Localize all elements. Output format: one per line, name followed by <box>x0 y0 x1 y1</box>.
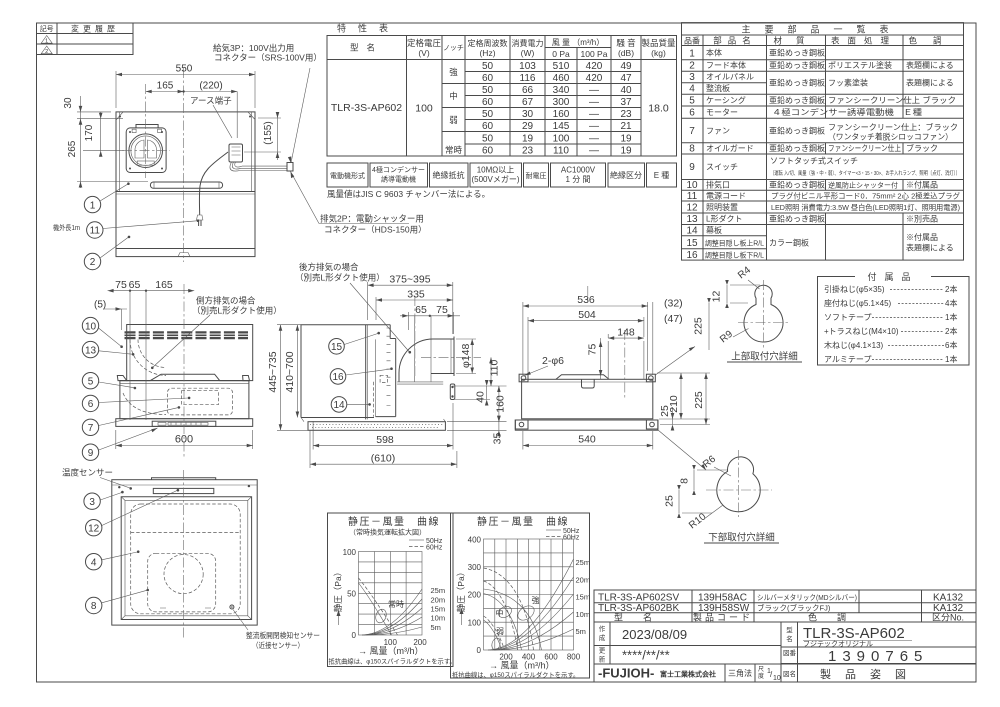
svg-text:製品コード: 製品コード <box>693 612 753 623</box>
svg-text:0: 0 <box>477 646 482 655</box>
balloon 15 <box>329 339 345 355</box>
svg-text:12: 12 <box>711 291 723 303</box>
svg-text:フッ素塗装: フッ素塗装 <box>828 78 868 88</box>
svg-text:2-φ6: 2-φ6 <box>542 355 564 367</box>
balloon 6 <box>82 395 98 411</box>
svg-text:160: 160 <box>553 109 570 120</box>
bottom inner line <box>116 248 255 250</box>
svg-text:335: 335 <box>407 289 425 301</box>
svg-text:30: 30 <box>63 97 74 109</box>
svg-text:亜鉛めっき鋼板: 亜鉛めっき鋼板 <box>769 214 825 224</box>
svg-text:50: 50 <box>482 109 494 120</box>
svg-text:200: 200 <box>468 591 482 600</box>
plug <box>197 215 203 220</box>
center line <box>183 470 185 640</box>
svg-text:116: 116 <box>520 73 536 84</box>
dim 210 <box>680 373 682 419</box>
svg-text:ファンシークリーン仕上: ファンシークリーン仕上 <box>828 143 901 153</box>
svg-text:13: 13 <box>686 214 698 225</box>
svg-text:19: 19 <box>620 134 632 145</box>
svg-text:下部取付穴詳細: 下部取付穴詳細 <box>708 532 775 544</box>
svg-text:15m: 15m <box>431 605 446 614</box>
hood center line <box>183 68 185 262</box>
svg-text:6: 6 <box>689 108 695 119</box>
svg-text:給気3P：100V出力用: 給気3P：100V出力用 <box>213 43 294 53</box>
svg-text:記号: 記号 <box>40 24 54 33</box>
svg-text:2本: 2本 <box>945 284 957 294</box>
svg-text:5: 5 <box>88 376 94 387</box>
svg-text:400: 400 <box>468 536 482 545</box>
svg-text:ソフトテープ: ソフトテープ <box>824 313 872 322</box>
svg-text:—: — <box>589 121 599 132</box>
svg-text:300: 300 <box>468 563 482 572</box>
dim 375~395 <box>367 282 369 320</box>
balloon 4 <box>86 554 102 570</box>
svg-text:上部取付穴詳細: 上部取付穴詳細 <box>731 351 798 363</box>
svg-text:225: 225 <box>693 391 705 409</box>
dim 160 <box>498 386 500 422</box>
svg-text:亜鉛めっき鋼板: 亜鉛めっき鋼板 <box>769 78 825 88</box>
left graph duct resistance curves <box>362 589 422 635</box>
svg-text:145: 145 <box>553 121 570 132</box>
svg-text:15m: 15m <box>576 593 591 602</box>
centerlines <box>738 322 789 324</box>
hood body <box>120 381 249 419</box>
svg-text:製品姿図: 製品姿図 <box>820 667 920 681</box>
svg-text:絶縁抵抗: 絶縁抵抗 <box>433 170 465 180</box>
svg-text:13: 13 <box>85 345 97 356</box>
svg-text:(220): (220) <box>199 81 222 92</box>
centerlines <box>706 489 772 491</box>
svg-text:8: 8 <box>679 478 691 484</box>
svg-text:ソフトタッチ式スイッチ: ソフトタッチ式スイッチ <box>770 156 858 166</box>
switch strip <box>152 421 216 426</box>
leader to upper keyhole <box>655 347 695 376</box>
svg-text:(32): (32) <box>664 298 683 310</box>
svg-text:L形ダクト: L形ダクト <box>706 214 742 224</box>
top bump <box>556 375 609 380</box>
balloon 11 <box>87 222 103 238</box>
svg-text:フジテックオリジナル: フジテックオリジナル <box>803 640 873 648</box>
svg-text:16: 16 <box>686 250 698 261</box>
leader to supply connector <box>291 68 310 163</box>
revision triangle 2 <box>41 46 52 54</box>
svg-text:→ 風量（m³/h）: → 風量（m³/h） <box>358 646 424 656</box>
svg-text:静圧（Pa）: 静圧（Pa） <box>456 568 466 612</box>
left graph box <box>328 513 454 667</box>
dim 75 vertical <box>600 338 602 379</box>
svg-text:4極コンデンサー: 4極コンデンサー <box>372 165 425 174</box>
svg-text:20m: 20m <box>431 596 446 605</box>
svg-text:8: 8 <box>91 601 97 612</box>
svg-text:付属品: 付属品 <box>867 272 918 282</box>
header bottom rule <box>327 59 677 61</box>
svg-text:亜鉛めっき鋼板: 亜鉛めっき鋼板 <box>769 60 825 70</box>
svg-text:25m: 25m <box>576 558 591 567</box>
svg-text:2: 2 <box>90 257 96 268</box>
svg-text:表面処理: 表面処理 <box>831 36 897 46</box>
right graph duct resistance curves <box>488 559 574 650</box>
svg-text:165: 165 <box>157 81 174 92</box>
svg-text:3: 3 <box>89 497 95 508</box>
svg-text:1 分 間: 1 分 間 <box>566 175 591 184</box>
part numbers <box>686 49 698 262</box>
svg-text:排気2P：電動シャッター用: 排気2P：電動シャッター用 <box>320 214 424 224</box>
svg-text:1本: 1本 <box>945 354 957 364</box>
svg-text:9: 9 <box>689 162 695 173</box>
svg-text:表題欄による: 表題欄による <box>906 78 954 88</box>
svg-text:名: 名 <box>786 634 793 643</box>
svg-text:（常時換気運転拡大図）: （常時換気運転拡大図） <box>349 528 426 537</box>
svg-text:5: 5 <box>689 96 695 107</box>
svg-text:21: 21 <box>620 121 632 132</box>
svg-text:誘導電動機: 誘導電動機 <box>381 175 416 184</box>
dim 25 lower <box>678 490 680 513</box>
svg-text:富士工業株式会社: 富士工業株式会社 <box>660 670 716 679</box>
svg-text:整流板: 整流板 <box>706 83 730 93</box>
svg-text:表題欄による: 表題欄による <box>906 60 954 70</box>
svg-text:210: 210 <box>668 395 680 413</box>
corner brackets <box>519 374 528 382</box>
svg-text:※付属品: ※付属品 <box>906 232 938 242</box>
outer rect <box>112 480 257 625</box>
svg-text:—: — <box>589 97 599 108</box>
svg-text:更: 更 <box>599 647 606 655</box>
svg-text:定格周波数: 定格周波数 <box>468 38 508 48</box>
svg-text:(W): (W) <box>521 48 535 58</box>
svg-text:25: 25 <box>664 495 676 507</box>
svg-text:表題欄による: 表題欄による <box>906 243 954 253</box>
row rules <box>465 71 641 73</box>
louver slots row 1 <box>125 331 249 333</box>
handle bar <box>150 182 222 188</box>
svg-text:0: 0 <box>352 631 357 640</box>
svg-text:定格電圧: 定格電圧 <box>407 38 442 48</box>
svg-text:1: 1 <box>45 39 48 45</box>
dim 600 <box>115 430 117 449</box>
svg-text:50: 50 <box>347 590 356 599</box>
svg-text:木ねじ(φ4.1×13): 木ねじ(φ4.1×13) <box>824 340 884 350</box>
svg-text:コネクター（HDS-150用）: コネクター（HDS-150用） <box>324 225 427 235</box>
graphs <box>328 513 591 679</box>
svg-text:1: 1 <box>90 200 96 211</box>
svg-text:—: — <box>589 85 599 96</box>
svg-text:19: 19 <box>522 134 534 145</box>
svg-text:成: 成 <box>599 633 606 642</box>
svg-text:区分No.: 区分No. <box>932 613 964 623</box>
L-duct elbow outer arc <box>399 339 433 373</box>
inner dashed square <box>148 553 216 612</box>
dim 110 <box>490 357 492 386</box>
shutter connector lead <box>230 162 287 171</box>
svg-text:型名: 型名 <box>614 612 672 623</box>
svg-text:14: 14 <box>686 226 698 237</box>
bottom panel <box>116 419 253 427</box>
mounting bracket right <box>450 384 455 400</box>
svg-text:新: 新 <box>599 655 606 664</box>
duct circle <box>129 134 163 168</box>
louver slots row 3 <box>125 337 249 339</box>
right graph box <box>451 513 590 678</box>
data rows <box>482 61 632 157</box>
svg-text:60: 60 <box>482 73 494 84</box>
svg-text:60: 60 <box>482 146 494 157</box>
svg-text:2023/08/09: 2023/08/09 <box>622 627 687 642</box>
svg-text:10MΩ以上: 10MΩ以上 <box>477 166 515 175</box>
svg-text:調整目隠し板下R/L: 調整目隠し板下R/L <box>705 251 764 260</box>
svg-text:材質: 材質 <box>773 36 818 46</box>
svg-text:静圧－風量 曲線: 静圧－風量 曲線 <box>477 515 569 528</box>
svg-text:2: 2 <box>689 61 695 72</box>
dim 8 <box>693 470 695 490</box>
svg-text:風 量 （m³/h）: 風 量 （m³/h） <box>552 38 604 47</box>
svg-text:50: 50 <box>482 134 494 145</box>
svg-text:(155): (155) <box>263 121 274 144</box>
svg-text:60: 60 <box>482 97 494 108</box>
svg-text:風量値はJIS C 9603 チャンバー法による。: 風量値はJIS C 9603 チャンバー法による。 <box>327 189 490 199</box>
svg-text:10: 10 <box>773 675 781 682</box>
right name area <box>797 622 799 682</box>
svg-text:35: 35 <box>492 433 504 445</box>
svg-text:(47): (47) <box>664 313 683 325</box>
svg-text:598: 598 <box>376 434 394 446</box>
svg-text:度: 度 <box>758 672 764 680</box>
svg-text:1本: 1本 <box>945 312 957 322</box>
power cord <box>199 152 228 215</box>
svg-text:67: 67 <box>522 97 534 108</box>
revision table <box>37 23 134 55</box>
svg-text:5m: 5m <box>431 623 441 632</box>
svg-text:160: 160 <box>495 395 507 413</box>
svg-text:カラー鋼板: カラー鋼板 <box>769 238 809 248</box>
sensor dot <box>230 605 234 609</box>
svg-text:温度センサー: 温度センサー <box>62 468 113 478</box>
duct center line <box>421 356 481 358</box>
body outline <box>301 325 390 418</box>
svg-text:66: 66 <box>522 85 534 96</box>
characteristics table <box>327 36 677 157</box>
svg-text:(500Vメガー): (500Vメガー) <box>471 174 519 184</box>
svg-text:排気口: 排気口 <box>706 180 730 190</box>
dim 550 <box>115 71 117 108</box>
svg-text:25m: 25m <box>431 586 446 595</box>
left graph legend <box>409 539 424 541</box>
back double line <box>365 325 367 420</box>
svg-text:9: 9 <box>88 448 94 459</box>
svg-text:12: 12 <box>686 203 698 214</box>
svg-text:抵抗曲線は、φ150スパイラルダクトを示す。: 抵抗曲線は、φ150スパイラルダクトを示す。 <box>329 657 456 666</box>
svg-text:23: 23 <box>522 146 534 157</box>
leader to lower keyhole <box>658 430 706 470</box>
svg-text:540: 540 <box>578 434 596 446</box>
svg-text:11: 11 <box>687 191 698 202</box>
accessories box <box>818 272 970 365</box>
svg-text:100 Pa: 100 Pa <box>581 49 608 59</box>
center line <box>183 284 185 458</box>
svg-text:色調: 色調 <box>808 612 866 623</box>
svg-text:特性表: 特性表 <box>337 23 400 34</box>
dim φ148 vertical <box>456 338 476 340</box>
dim 536 <box>522 302 524 375</box>
svg-text:静圧－風量 曲線: 静圧－風量 曲線 <box>348 515 440 528</box>
svg-text:AC1000V: AC1000V <box>561 166 596 175</box>
svg-text:図番: 図番 <box>783 649 797 657</box>
svg-text:800: 800 <box>567 653 581 662</box>
balloon 8 <box>86 597 102 613</box>
svg-text:110: 110 <box>553 146 569 157</box>
svg-text:オイルガード: オイルガード <box>706 143 754 153</box>
balloon 12 <box>86 520 102 536</box>
dim 598 <box>312 421 314 450</box>
svg-text:後方排気の場合: 後方排気の場合 <box>299 262 359 272</box>
flange corner screws <box>129 131 131 133</box>
svg-text:60Hz: 60Hz <box>426 545 443 552</box>
svg-text:絶縁区分: 絶縁区分 <box>610 170 642 180</box>
svg-text:****/**/**: ****/**/** <box>622 648 670 663</box>
svg-text:亜鉛めっき鋼板: 亜鉛めっき鋼板 <box>769 180 825 190</box>
svg-text:75: 75 <box>436 304 448 316</box>
svg-text:40: 40 <box>620 85 632 96</box>
svg-text:主要部品一覧表: 主要部品一覧表 <box>741 24 902 35</box>
balloon 7 <box>82 419 98 435</box>
svg-text:2: 2 <box>45 49 48 55</box>
svg-text:製品質量: 製品質量 <box>641 38 676 48</box>
svg-text:型: 型 <box>786 625 793 634</box>
svg-text:シルバーメタリック(MDシルバー): シルバーメタリック(MDシルバー) <box>757 593 857 602</box>
earth terminal connector <box>229 144 243 162</box>
svg-text:本体: 本体 <box>706 48 722 58</box>
side exhaust dashed L-duct arc <box>130 340 166 376</box>
svg-text:10: 10 <box>686 180 698 191</box>
svg-text:LED照明 消費電力:3.5W 昼白色(LED照明1灯、照明: LED照明 消費電力:3.5W 昼白色(LED照明1灯、照明用電源) <box>771 202 960 212</box>
svg-text:静圧（Pa）: 静圧（Pa） <box>333 568 343 612</box>
svg-text:幕板: 幕板 <box>706 225 722 235</box>
center notch <box>582 379 595 388</box>
svg-text:50: 50 <box>482 61 494 72</box>
dim 148 <box>607 334 609 338</box>
svg-text:常時: 常時 <box>445 145 463 155</box>
balloon 10 <box>82 317 98 333</box>
svg-text:亜鉛めっき鋼板: 亜鉛めっき鋼板 <box>769 126 825 136</box>
svg-text:アルミテープ: アルミテープ <box>824 355 871 364</box>
bottom panel <box>515 420 658 430</box>
svg-text:4本: 4本 <box>945 298 957 308</box>
svg-text:49: 49 <box>620 61 632 72</box>
svg-text:19: 19 <box>620 146 632 157</box>
svg-text:調整目隠し板上R/L: 調整目隠し板上R/L <box>705 239 764 248</box>
svg-text:504: 504 <box>578 309 596 321</box>
svg-text:15: 15 <box>331 342 343 353</box>
svg-text:TLR-3S-AP602: TLR-3S-AP602 <box>331 102 402 114</box>
balloon 16 <box>330 369 346 385</box>
svg-text:375~395: 375~395 <box>389 274 430 286</box>
balloon 3 <box>84 493 100 509</box>
svg-text:逆風防止シャッター付: 逆風防止シャッター付 <box>828 181 898 190</box>
svg-text:中: 中 <box>449 91 458 101</box>
right graph fan curves <box>484 589 542 650</box>
adjustment hole ticks <box>387 328 391 406</box>
svg-text:（別売L形ダクト使用）: （別売L形ダクト使用） <box>192 306 282 316</box>
svg-text:75: 75 <box>115 279 127 291</box>
svg-text:強: 強 <box>449 67 458 77</box>
svg-text:148: 148 <box>617 326 635 338</box>
upper rows <box>594 602 976 604</box>
svg-text:整流板開閉検知センサー: 整流板開閉検知センサー <box>246 630 320 640</box>
LED slot <box>153 488 214 493</box>
right graph legend <box>546 529 561 531</box>
svg-text:ポリエステル塗装: ポリエステル塗装 <box>828 60 892 70</box>
rear panel <box>389 325 391 339</box>
lower-left date rows <box>594 645 781 647</box>
svg-text:60Hz: 60Hz <box>563 535 580 542</box>
svg-text:亜鉛めっき鋼板: 亜鉛めっき鋼板 <box>769 48 825 58</box>
svg-text:12: 12 <box>88 523 100 534</box>
svg-text:4: 4 <box>91 557 97 568</box>
svg-text:弱: 弱 <box>449 115 458 125</box>
svg-text:300: 300 <box>553 97 570 108</box>
svg-text:0 Pa: 0 Pa <box>552 49 570 59</box>
svg-text:(V): (V) <box>418 48 430 58</box>
revision triangle 1 <box>41 36 52 44</box>
svg-text:４極コンデンサー誘導電動機 Ｅ種: ４極コンデンサー誘導電動機 Ｅ種 <box>772 107 922 117</box>
svg-text:図名: 図名 <box>783 669 796 678</box>
dim 65 75 <box>407 312 409 330</box>
dim 335 <box>375 297 377 320</box>
svg-text:強: 強 <box>532 595 540 605</box>
svg-text:(610): (610) <box>371 452 396 464</box>
keyhole shape <box>744 285 783 342</box>
svg-text:（近接センサー）: （近接センサー） <box>252 640 304 650</box>
balloon 14 <box>331 397 347 413</box>
dim 165 / (220) <box>146 91 238 93</box>
svg-text:7: 7 <box>88 423 94 434</box>
top cover strip <box>152 478 216 480</box>
dim 25 <box>672 419 674 425</box>
svg-text:29: 29 <box>522 121 534 132</box>
dim 225 upper <box>708 303 710 350</box>
svg-text:耐電圧: 耐電圧 <box>526 171 547 180</box>
svg-text:1390765: 1390765 <box>828 648 928 665</box>
svg-text:10: 10 <box>85 321 97 332</box>
baffle dashed rounded rect <box>131 504 241 614</box>
right-side dims of duct view <box>453 385 507 387</box>
svg-text:50: 50 <box>482 85 494 96</box>
column rules <box>702 35 704 260</box>
small marks bottom <box>160 607 211 609</box>
svg-text:〔運転 入/切、風量〔強・中・弱〕、タイマー<3・15・30: 〔運転 入/切、風量〔強・中・弱〕、タイマー<3・15・30>、お手入れランプ、… <box>770 169 960 177</box>
svg-text:265: 265 <box>67 140 78 157</box>
svg-text:品番: 品番 <box>684 36 700 46</box>
svg-text:亜鉛めっき鋼板: 亜鉛めっき鋼板 <box>769 95 825 105</box>
duct center crosshair <box>122 150 170 152</box>
svg-text:三角法: 三角法 <box>728 668 752 678</box>
hood front double line <box>116 191 255 193</box>
svg-text:550: 550 <box>176 64 193 75</box>
dim 40 <box>486 386 488 400</box>
svg-text:騒 音: 騒 音 <box>616 38 636 48</box>
svg-text:型名: 型名 <box>350 43 383 53</box>
svg-text:30: 30 <box>522 109 534 120</box>
duct thin lines <box>607 341 609 379</box>
svg-text:部品名: 部品名 <box>713 36 757 46</box>
svg-text:23: 23 <box>620 109 632 120</box>
svg-text:—: — <box>589 146 599 157</box>
svg-text:-FUJIOH-: -FUJIOH- <box>598 666 654 681</box>
left graph fan curve 60Hz <box>359 578 398 635</box>
svg-text:尺: 尺 <box>758 666 764 673</box>
balloon 9 <box>82 444 98 460</box>
fan scroll dashed <box>123 393 166 415</box>
